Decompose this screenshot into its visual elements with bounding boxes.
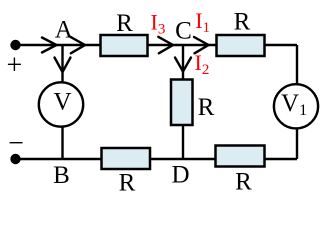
svg-text:R: R xyxy=(116,10,133,37)
svg-text:C: C xyxy=(175,18,192,45)
svg-text:B: B xyxy=(53,162,70,189)
svg-text:R: R xyxy=(235,169,252,196)
svg-text:V: V xyxy=(53,89,71,116)
svg-text:A: A xyxy=(55,17,73,44)
svg-text:R: R xyxy=(198,94,215,121)
svg-text:+: + xyxy=(7,50,23,81)
svg-text:D: D xyxy=(171,162,189,189)
svg-text:R: R xyxy=(119,170,136,197)
svg-text:−: − xyxy=(8,128,24,159)
svg-text:R: R xyxy=(234,9,251,36)
